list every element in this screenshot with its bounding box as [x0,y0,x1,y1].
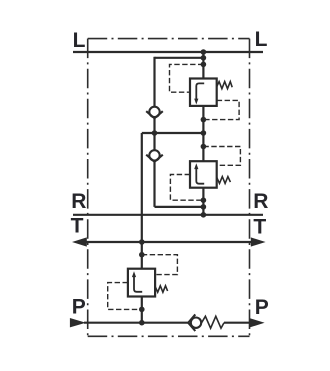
svg-text:P: P [255,296,269,319]
wire: cross branch at y=133 to left drop line [142,133,204,242]
wire: top branch from L line to check-valve column [155,57,204,59]
RV3 pilot line (left, to downstream) [108,283,142,310]
RV2 pilot line (left, to downstream) [170,175,203,201]
port label P (left) [72,296,86,319]
relief valve RV3 body [128,269,155,297]
RV1 internal flow arrow [194,83,204,104]
RV3 pilot line (right, from upstream) [142,255,178,275]
P left arrowhead [70,318,86,327]
RV3 spring [155,286,168,292]
port line L [73,51,263,53]
junction node: cross branch / check-valve column [152,130,158,136]
check valve CV1 [146,107,163,119]
check valve CV4 on P line [188,314,201,331]
svg-text:P: P [72,296,86,319]
RV1 spring [217,82,233,89]
RV2 internal flow arrow [194,163,204,184]
wire: check-valve column vertical [155,57,204,207]
junction node: RV3 left pilot tap [139,307,145,313]
svg-text:R: R [253,190,268,213]
RV3 internal flow arrow [132,271,142,292]
port label L (right) [255,28,268,51]
port line T [83,241,253,243]
junction node: drop line / T line [139,239,145,245]
port label T (left) [71,215,84,238]
wire: relief valve RV3 drop from T line to P line [141,242,143,323]
enclosure boundary (dash-dot) [88,39,250,337]
RV2 pilot line (right, from upstream) [203,147,240,166]
junction node: top branch / main vertical [201,55,207,61]
junction node: cross branch / main vertical [201,130,207,136]
svg-text:L: L [73,29,86,52]
svg-text:R: R [71,190,86,213]
junction node: check-valve column return [201,204,207,210]
junction node: main vertical / R line [201,212,207,218]
RV1 pilot line (right, to downstream) [203,100,239,119]
svg-text:T: T [253,216,266,239]
junction node: RV3 top pilot tap [139,252,145,258]
port line P [84,322,251,324]
svg-text:T: T [71,215,84,238]
check valve CV2 [146,150,163,162]
wire: main vertical from L line through RV1 and RV2 to R line [202,52,204,215]
T right arrowhead [251,237,266,246]
port label L (left) [73,29,86,52]
RV2 spring [217,177,231,184]
junction node: L line / main vertical [201,49,207,55]
junction node: RV1 left pilot tap [201,62,207,68]
junction node: RV1 right pilot tap [201,117,207,123]
junction node: drop line / P line [139,320,145,326]
port label R (left) [71,190,86,213]
svg-text:L: L [255,28,268,51]
port label R (right) [253,190,268,213]
T left arrowhead [72,237,87,246]
CV4 spring [202,316,224,328]
junction node: RV2 left pilot tap [201,197,207,203]
junction node: RV2 top pilot tap [201,144,207,150]
P right arrowhead [250,318,265,327]
relief valve RV2 body [190,161,217,188]
port line R [73,214,263,216]
RV1 pilot line (left, from upstream) [170,64,204,92]
port label P (right) [255,296,269,319]
port label T (right) [253,216,266,239]
relief valve RV1 body [190,79,217,106]
